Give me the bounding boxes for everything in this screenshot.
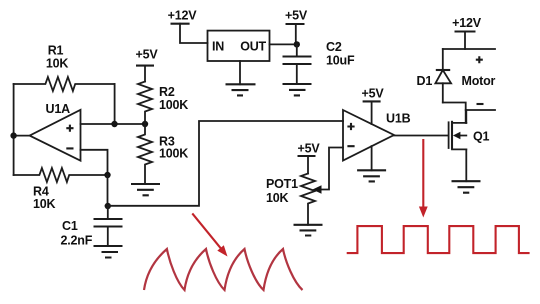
wire D1 anode to motor negative / Q1 drain — [443, 103, 466, 123]
regulator U2 IN/OUT box — [208, 31, 270, 61]
square wave PWM output waveform — [347, 226, 530, 253]
node dot U1A output on left rail — [10, 132, 16, 138]
wire motor top rail — [443, 48, 495, 50]
power +12V to regulator input — [168, 9, 208, 44]
motor M1 — [462, 56, 496, 110]
svg-text:10K: 10K — [266, 191, 289, 205]
red arrow to square wave — [419, 139, 428, 218]
wire Q1 drain up to motor negative — [465, 110, 467, 123]
svg-text:+5V: +5V — [362, 87, 385, 101]
power +5V above POT1 — [298, 141, 321, 173]
transistor Q1 (N-channel MOSFET) — [449, 121, 490, 150]
capacitor C1 — [61, 206, 123, 248]
node dot R1/+input junction — [111, 121, 117, 127]
svg-text:+12V: +12V — [452, 16, 482, 30]
svg-text:R1: R1 — [48, 44, 64, 58]
svg-text:+5V: +5V — [136, 47, 159, 61]
wire U1A noninverting input to R2/R3 node — [81, 123, 146, 125]
node dot R2/R3 divider junction — [142, 121, 148, 127]
capacitor C2 — [283, 40, 355, 84]
sawtooth waveform at C1 — [144, 249, 303, 290]
ground below C1 — [94, 246, 123, 258]
node dot C1 top node — [105, 203, 111, 209]
svg-text:2.2nF: 2.2nF — [61, 234, 93, 248]
power +5V at regulator output — [285, 9, 308, 45]
svg-text:C1: C1 — [62, 219, 78, 233]
ground below C2 — [283, 84, 312, 95]
svg-text:+5V: +5V — [298, 141, 321, 155]
resistor R1 — [14, 44, 115, 92]
node dot R4 / inverting input junction — [104, 172, 110, 178]
svg-text:10K: 10K — [33, 197, 56, 211]
wire left rail (U1A output to R1 and R4) — [13, 84, 15, 175]
svg-text:100K: 100K — [159, 147, 188, 161]
wire U1B output to Q1 gate — [394, 135, 449, 137]
ground below regulator — [226, 84, 256, 95]
wire U1A output — [14, 135, 30, 137]
red arrow to sawtooth waveform — [192, 213, 227, 256]
wire R1 right drop to noninverting input — [114, 84, 116, 124]
svg-text:+5V: +5V — [285, 9, 308, 23]
resistor R3 — [138, 124, 188, 184]
POT1 wiper arrowhead — [313, 185, 322, 194]
op-amp U1B — [343, 110, 411, 161]
resistor R2 — [138, 82, 188, 125]
svg-text:D1: D1 — [417, 74, 433, 88]
op-amp U1A — [30, 102, 81, 161]
svg-text:10K: 10K — [46, 57, 69, 71]
power +5V above U1B — [362, 87, 385, 125]
svg-text:10uF: 10uF — [326, 54, 355, 68]
svg-text:C2: C2 — [326, 40, 342, 54]
potentiometer POT1 — [266, 174, 315, 225]
wire U1B negative supply to ground — [371, 146, 373, 170]
wire U1A inverting input — [81, 150, 108, 175]
svg-text:U1B: U1B — [386, 112, 411, 126]
diode D1 — [417, 49, 452, 103]
power +12V above motor — [452, 16, 482, 49]
svg-text:POT1: POT1 — [266, 177, 298, 191]
ground below Q1 — [452, 181, 481, 193]
resistor R4 — [14, 168, 108, 211]
svg-text:Q1: Q1 — [473, 130, 490, 144]
ground below R3 — [131, 184, 160, 195]
svg-text:U1A: U1A — [46, 102, 71, 116]
wire regulator to ground — [239, 61, 241, 84]
svg-text:OUT: OUT — [240, 40, 266, 54]
node dot +5V/C2 junction — [294, 41, 300, 47]
wire U1B inverting input to POT1 wiper — [316, 148, 343, 190]
svg-text:Motor: Motor — [462, 74, 496, 88]
wire Q1 source down to ground — [465, 149, 467, 181]
power +5V above R2 — [136, 47, 159, 81]
ground below U1B — [357, 170, 386, 181]
svg-text:100K: 100K — [159, 98, 188, 112]
svg-text:+12V: +12V — [168, 9, 198, 23]
wire sawtooth node to U1B noninverting input — [108, 121, 343, 206]
wire inverting node down to C1 — [107, 175, 109, 206]
wire regulator OUT to +5V node — [270, 43, 297, 45]
svg-text:IN: IN — [212, 40, 224, 54]
ground below POT1 — [294, 225, 323, 236]
